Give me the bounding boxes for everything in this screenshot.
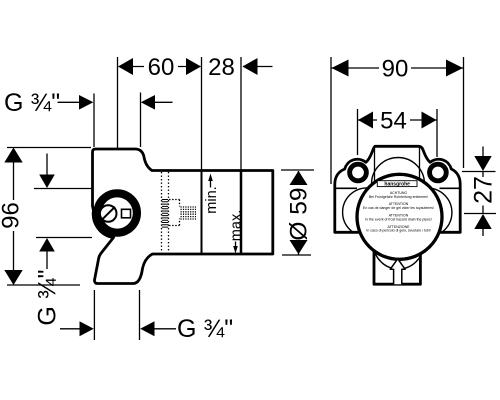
inner 3/4 extension top bbox=[34, 188, 92, 190]
bottom G 3/4 arrow left bbox=[140, 321, 154, 336]
dim 96 extension bottom bbox=[7, 284, 80, 286]
min arrow bbox=[210, 178, 212, 188]
G 3/4 top extension left bbox=[93, 94, 95, 148]
left ear port ring bbox=[350, 164, 367, 181]
dim 27 arrow up (below) bbox=[474, 214, 491, 229]
inner 3/4 extension bottom bbox=[36, 237, 92, 239]
dia 59 extension bottom bbox=[282, 254, 311, 256]
top plate edge left bbox=[374, 147, 376, 190]
dim 27 extension bottom bbox=[464, 213, 496, 215]
finished wall line (max plane) bbox=[240, 171, 243, 255]
dim 96 arrow down bbox=[4, 270, 22, 285]
dim 60 arrow left bbox=[118, 58, 133, 75]
dim 27 line bbox=[482, 147, 484, 237]
dim 60/28 shared extension line bbox=[201, 57, 203, 170]
dim 54 extension left bbox=[357, 109, 359, 155]
spindle nub bbox=[122, 209, 131, 218]
cartridge ring bbox=[98, 193, 137, 232]
dim 90 extension left bbox=[330, 57, 332, 184]
dim 90 line bbox=[331, 67, 464, 69]
G 3/4 top arrow left bbox=[141, 95, 155, 110]
dim 27 extension top bbox=[462, 171, 496, 173]
max arrow bbox=[235, 242, 237, 249]
dia 59 arrow down bbox=[290, 240, 308, 254]
hansgrohe label box bbox=[377, 181, 417, 187]
dim 28 arrow bbox=[243, 58, 258, 75]
dim 90 arrow right bbox=[446, 60, 463, 77]
dim 27 arrow down (above) bbox=[474, 156, 491, 171]
dim 96 line bbox=[13, 149, 15, 284]
hidden mounting plate dashed line left bbox=[161, 172, 163, 252]
dim 60 line bbox=[119, 66, 201, 68]
right ear port ring bbox=[430, 164, 447, 181]
boss ledge right bbox=[440, 187, 461, 189]
svg-text:60: 60 bbox=[148, 54, 175, 81]
svg-text:G ¾": G ¾" bbox=[34, 269, 62, 325]
hidden plate hatch band bbox=[162, 199, 168, 228]
dia 59 extension top bbox=[281, 169, 314, 171]
G 3/4 top arrow right bbox=[79, 95, 93, 110]
spindle slot bbox=[102, 207, 115, 220]
svg-text:27: 27 bbox=[470, 176, 498, 204]
top lobe circle bbox=[372, 158, 425, 211]
dia 59 arrow up bbox=[290, 171, 308, 185]
G 3/4 top extension right bbox=[140, 93, 142, 148]
bottom G 3/4 extension right bbox=[139, 290, 141, 340]
svg-text:96: 96 bbox=[0, 202, 25, 229]
svg-text:G ¾": G ¾" bbox=[4, 89, 60, 117]
dim 54 arrow left bbox=[358, 112, 373, 129]
dim 60 arrow right bbox=[186, 58, 201, 75]
right lobe circle bbox=[403, 188, 452, 237]
boss ledge left bbox=[335, 187, 357, 189]
svg-text:G ¾": G ¾" bbox=[177, 315, 233, 343]
dim 54 arrow right bbox=[422, 112, 437, 129]
bottom lobe circle bbox=[374, 219, 424, 269]
dim 60 extension line left (spindle axis) bbox=[117, 57, 119, 148]
dim 54 line bbox=[358, 119, 438, 121]
svg-text:Ø 59: Ø 59 bbox=[286, 187, 313, 240]
bottom G 3/4 extension left bbox=[93, 290, 95, 340]
hidden spindle funnel dashes bbox=[169, 200, 180, 226]
front body outline bbox=[335, 146, 460, 284]
dim 54 extension right bbox=[436, 109, 438, 157]
dim 90 arrow left bbox=[332, 60, 349, 77]
inner 3/4 arrow up bbox=[46, 250, 48, 269]
bottom G 3/4 arrow right bbox=[80, 321, 94, 336]
top plate edge right bbox=[419, 147, 421, 190]
inner wall line (min plane) bbox=[201, 171, 203, 254]
svg-text:Bei Frostgefahr Rohrleitung en: Bei Frostgefahr Rohrleitung entleeren! bbox=[369, 195, 428, 199]
pipe flow arrow bbox=[390, 259, 405, 284]
dim 28 line bbox=[243, 66, 273, 68]
G 3/4 top tail bbox=[154, 101, 173, 103]
svg-text:90: 90 bbox=[382, 55, 409, 82]
svg-text:54: 54 bbox=[380, 107, 407, 134]
svg-text:max.: max. bbox=[229, 210, 245, 241]
dim 96 arrow up bbox=[4, 148, 22, 163]
left lobe circle bbox=[343, 188, 392, 237]
dia 59 line bbox=[298, 171, 300, 255]
big front circle bbox=[357, 174, 442, 259]
valve body side outline bbox=[93, 149, 273, 284]
hidden spring block bbox=[181, 207, 197, 219]
spindle circle bbox=[100, 205, 117, 222]
G 3/4 top leader bbox=[58, 101, 80, 103]
dim 90 extension right bbox=[463, 57, 465, 168]
dim 96 extension top bbox=[7, 147, 91, 149]
inner 3/4 arrow down bbox=[46, 154, 48, 177]
svg-text:In caso di pericolo di gelo, s: In caso di pericolo di gelo, svuotare i … bbox=[366, 229, 430, 233]
svg-text:hansgrohe: hansgrohe bbox=[384, 182, 410, 188]
svg-text:En cas de danger de gel vider: En cas de danger de gel vider les tuyaut… bbox=[363, 206, 434, 210]
svg-text:min.: min. bbox=[204, 186, 220, 213]
svg-text:28: 28 bbox=[208, 54, 235, 81]
hidden mounting plate dashed line right bbox=[168, 172, 170, 252]
bottom G 3/4 line left bbox=[60, 328, 81, 330]
dim 28 extension line right bbox=[240, 57, 242, 170]
svg-text:In the event of frost hazard d: In the event of frost hazard drain the p… bbox=[365, 217, 432, 221]
bottom G 3/4 tail bbox=[154, 328, 177, 330]
